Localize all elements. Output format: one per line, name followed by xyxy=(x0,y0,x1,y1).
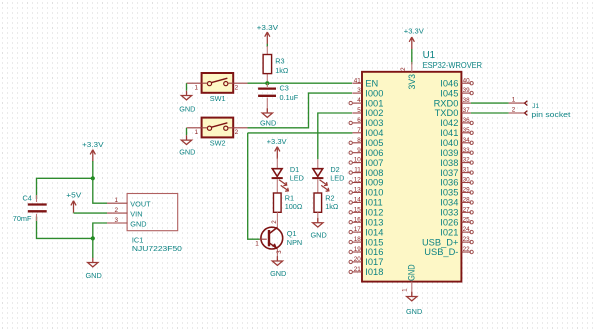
svg-text:15: 15 xyxy=(354,206,362,213)
svg-text:3: 3 xyxy=(276,250,283,254)
svg-text:I004: I004 xyxy=(365,128,383,138)
svg-text:NJU7223F50: NJU7223F50 xyxy=(132,244,182,253)
pin 1 of SW1 xyxy=(187,83,208,91)
svg-text:40: 40 xyxy=(463,77,471,84)
svg-text:1: 1 xyxy=(512,97,516,104)
svg-text:I015: I015 xyxy=(365,237,383,247)
LED D1 xyxy=(272,169,289,192)
svg-text:USB_D+: USB_D+ xyxy=(422,237,458,247)
pin 11 (I008) xyxy=(349,167,383,178)
pin 20 (I017) xyxy=(349,256,383,267)
junction xyxy=(265,81,269,85)
power +5V xyxy=(66,190,81,212)
wire xyxy=(317,179,319,193)
pin 6 (I003) xyxy=(349,117,383,128)
pin 3 (I000) xyxy=(352,87,383,98)
svg-text:8: 8 xyxy=(357,137,361,144)
pin 23 (USB_D+) xyxy=(422,236,473,247)
svg-text:2: 2 xyxy=(512,107,516,114)
svg-text:LED: LED xyxy=(330,174,344,183)
svg-text:1: 1 xyxy=(195,129,199,136)
pin 34 (I040) xyxy=(440,137,473,148)
svg-text:37: 37 xyxy=(463,107,471,114)
svg-text:1kΩ: 1kΩ xyxy=(325,202,339,211)
pin 36 (I042) xyxy=(440,117,473,128)
svg-text:5: 5 xyxy=(357,107,361,114)
power +3.3V (U1 3V3) xyxy=(404,26,424,49)
pin 14 (I011) xyxy=(349,197,383,208)
power +3.3V (R3 pull-up) xyxy=(257,23,279,44)
svg-text:GND: GND xyxy=(86,271,102,280)
svg-text:1: 1 xyxy=(255,241,259,248)
svg-text:I008: I008 xyxy=(365,168,383,178)
ground xyxy=(179,91,195,114)
svg-text:R1: R1 xyxy=(285,193,294,202)
pin 18 (I015) xyxy=(349,236,383,247)
resistor R1 xyxy=(274,193,282,212)
transistor Q1 xyxy=(261,227,283,249)
LED D2 xyxy=(312,169,329,192)
svg-text:27: 27 xyxy=(463,206,471,213)
connector J1 pin 2 xyxy=(509,107,528,116)
svg-text:39: 39 xyxy=(463,87,471,94)
svg-text:1: 1 xyxy=(195,84,199,91)
pin 8 (I005) xyxy=(349,137,383,148)
power +3.3V (regulator output rail) xyxy=(82,140,104,162)
svg-text:I005: I005 xyxy=(365,138,383,148)
svg-text:I010: I010 xyxy=(365,188,383,198)
svg-text:36: 36 xyxy=(463,117,471,124)
svg-text:I036: I036 xyxy=(440,178,458,188)
svg-text:I007: I007 xyxy=(365,158,383,168)
pin 1 of SW2 xyxy=(187,128,208,136)
svg-text:EN: EN xyxy=(365,78,378,88)
svg-text:0.1uF: 0.1uF xyxy=(280,93,299,102)
pin 33 (I039) xyxy=(440,147,473,158)
wire xyxy=(186,128,188,136)
pin 17 (I014) xyxy=(349,226,383,237)
ground xyxy=(270,256,286,278)
svg-text:+3.3V: +3.3V xyxy=(267,137,287,146)
svg-text:3: 3 xyxy=(357,87,361,94)
ground xyxy=(406,292,422,317)
wire emitter xyxy=(276,249,278,261)
wire collector xyxy=(276,212,278,227)
svg-text:I012: I012 xyxy=(365,208,383,218)
svg-text:pin socket: pin socket xyxy=(531,110,570,119)
svg-text:I018: I018 xyxy=(365,267,383,277)
svg-text:2: 2 xyxy=(400,67,407,71)
ground xyxy=(86,258,102,280)
pin 40 (I046) xyxy=(440,77,473,88)
svg-text:RXD0: RXD0 xyxy=(434,98,459,108)
pin 2 of SW2 xyxy=(228,128,248,136)
pin 29 (I035) xyxy=(440,187,473,198)
pin 27 (I033) xyxy=(440,206,473,217)
pin 4 (I001) xyxy=(349,97,383,108)
svg-text:C4: C4 xyxy=(23,194,32,203)
connector J1 pin 1 xyxy=(509,97,528,106)
svg-text:+3.3V: +3.3V xyxy=(82,140,104,149)
svg-text:SW2: SW2 xyxy=(210,139,226,148)
svg-text:32: 32 xyxy=(463,157,471,164)
svg-text:NPN: NPN xyxy=(287,238,302,247)
wire xyxy=(93,223,107,238)
svg-text:16: 16 xyxy=(354,216,362,223)
svg-text:I041: I041 xyxy=(440,128,458,138)
pin 9 (I006) xyxy=(349,147,383,158)
pin 21 (I018) xyxy=(349,266,383,277)
svg-text:I000: I000 xyxy=(365,88,383,98)
svg-text:24: 24 xyxy=(463,226,471,233)
pin 39 (I045) xyxy=(440,87,473,98)
pin 15 (I012) xyxy=(349,206,383,217)
pin 19 (I016) xyxy=(349,246,383,257)
ground xyxy=(260,108,276,127)
svg-text:6: 6 xyxy=(357,117,361,124)
svg-text:2: 2 xyxy=(115,207,119,214)
svg-text:GND: GND xyxy=(270,269,286,278)
pin 25 (I026) xyxy=(440,216,473,227)
svg-text:R3: R3 xyxy=(275,57,284,66)
svg-text:31: 31 xyxy=(463,167,471,174)
svg-text:GND: GND xyxy=(130,220,146,229)
svg-text:19: 19 xyxy=(354,246,362,253)
wire xyxy=(74,212,108,214)
wire xyxy=(92,238,94,258)
pin 13 (I010) xyxy=(349,187,383,198)
svg-text:1kΩ: 1kΩ xyxy=(275,66,289,75)
switch SW1 xyxy=(202,73,234,93)
svg-text:21: 21 xyxy=(354,266,362,273)
svg-text:10: 10 xyxy=(354,157,362,164)
ground xyxy=(311,218,327,240)
svg-text:22: 22 xyxy=(463,246,471,253)
svg-text:SW1: SW1 xyxy=(210,94,226,103)
svg-text:I016: I016 xyxy=(365,247,383,257)
pin 24 (I021) xyxy=(440,226,473,237)
pin 3 GND xyxy=(107,217,147,229)
svg-text:GND: GND xyxy=(406,307,422,316)
resistor R2 xyxy=(314,193,322,212)
svg-text:+5V: +5V xyxy=(66,190,81,199)
svg-text:I014: I014 xyxy=(365,227,383,237)
power +3.3V (LED D1 supply) xyxy=(267,137,287,159)
svg-text:I042: I042 xyxy=(440,118,458,128)
pin 30 (I036) xyxy=(440,177,473,188)
svg-text:C3: C3 xyxy=(280,83,289,92)
svg-text:I037: I037 xyxy=(440,168,458,178)
svg-text:18: 18 xyxy=(354,236,362,243)
svg-text:GND: GND xyxy=(260,118,276,127)
svg-text:2: 2 xyxy=(271,220,278,224)
wire xyxy=(276,159,278,169)
svg-text:LED: LED xyxy=(290,174,304,183)
pin 5 (I002) xyxy=(352,107,383,118)
pin 31 (I037) xyxy=(440,167,473,178)
pin 37 (TXD0) xyxy=(435,107,471,118)
svg-text:I001: I001 xyxy=(365,98,383,108)
svg-text:ESP32-WROVER: ESP32-WROVER xyxy=(423,60,483,70)
pin base stub xyxy=(260,238,267,240)
capacitor C4 xyxy=(28,195,47,221)
svg-text:11: 11 xyxy=(354,167,361,174)
pin 1 (GND) xyxy=(402,264,417,296)
svg-text:100Ω: 100Ω xyxy=(285,202,303,211)
svg-text:23: 23 xyxy=(463,236,471,243)
svg-text:20: 20 xyxy=(354,256,362,263)
wire xyxy=(93,178,107,203)
svg-text:9: 9 xyxy=(357,147,361,154)
junction xyxy=(91,176,95,180)
wire xyxy=(276,179,278,193)
pin 7 (I004) xyxy=(352,127,383,138)
svg-text:I011: I011 xyxy=(365,198,382,208)
svg-text:I017: I017 xyxy=(365,257,383,267)
svg-text:I002: I002 xyxy=(365,108,383,118)
svg-text:Q1: Q1 xyxy=(287,229,297,238)
svg-text:VIN: VIN xyxy=(130,210,142,219)
wire xyxy=(411,49,413,64)
switch SW2 xyxy=(202,118,234,138)
wire RXD0 to J1 xyxy=(471,102,509,104)
pin 32 (I038) xyxy=(440,157,473,168)
pin 12 (I009) xyxy=(349,177,383,188)
svg-text:12: 12 xyxy=(354,177,362,184)
svg-text:38: 38 xyxy=(463,97,471,104)
wire xyxy=(37,178,93,199)
svg-text:13: 13 xyxy=(354,187,362,194)
svg-text:I039: I039 xyxy=(440,148,458,158)
wire xyxy=(317,159,319,168)
pin 22 (USB_D-) xyxy=(424,246,473,257)
wire SW1 to EN xyxy=(248,82,353,84)
wire xyxy=(266,44,268,47)
svg-text:I045: I045 xyxy=(440,88,458,98)
pin 2 of SW1 xyxy=(228,83,248,91)
wire xyxy=(317,212,319,222)
svg-text:I013: I013 xyxy=(365,217,383,227)
pin 35 (I041) xyxy=(440,127,473,138)
capacitor C3 xyxy=(258,83,276,113)
svg-text:41: 41 xyxy=(354,77,362,84)
svg-text:GND: GND xyxy=(407,264,417,281)
pin 1 VOUT xyxy=(107,197,151,208)
svg-text:I021: I021 xyxy=(440,227,458,237)
svg-text:I038: I038 xyxy=(440,158,458,168)
ground xyxy=(179,135,195,156)
svg-text:USB_D-: USB_D- xyxy=(424,247,458,257)
svg-text:70mF: 70mF xyxy=(13,214,32,223)
wire SW2 to I000 xyxy=(248,93,353,128)
svg-text:I003: I003 xyxy=(365,118,383,128)
svg-text:30: 30 xyxy=(463,177,471,184)
wire xyxy=(186,83,188,91)
svg-text:14: 14 xyxy=(354,197,362,204)
MCU U1 body xyxy=(362,72,461,282)
pin 38 (RXD0) xyxy=(434,97,471,108)
svg-text:35: 35 xyxy=(463,127,471,134)
pin 2 VIN xyxy=(107,207,142,219)
svg-text:I034: I034 xyxy=(440,198,458,208)
svg-text:I040: I040 xyxy=(440,138,458,148)
svg-text:GND: GND xyxy=(179,148,195,157)
svg-text:33: 33 xyxy=(463,147,471,154)
pin 16 (I013) xyxy=(349,216,383,227)
pin 2 (3V3) xyxy=(400,62,417,90)
svg-text:2: 2 xyxy=(235,129,239,136)
junction xyxy=(91,236,95,240)
svg-text:+3.3V: +3.3V xyxy=(404,26,424,35)
svg-text:29: 29 xyxy=(463,187,471,194)
svg-text:I046: I046 xyxy=(440,78,458,88)
svg-text:17: 17 xyxy=(354,226,362,233)
svg-text:2: 2 xyxy=(235,84,239,91)
svg-text:28: 28 xyxy=(463,197,471,204)
svg-text:I009: I009 xyxy=(365,178,383,188)
svg-text:1: 1 xyxy=(115,197,119,204)
svg-text:VOUT: VOUT xyxy=(130,200,151,209)
svg-text:GND: GND xyxy=(311,231,327,240)
svg-text:I035: I035 xyxy=(440,188,458,198)
wire TXD0 to J1 xyxy=(471,112,509,114)
wire base xyxy=(248,133,260,239)
svg-text:TXD0: TXD0 xyxy=(435,108,459,118)
wire xyxy=(37,217,93,239)
svg-text:I026: I026 xyxy=(440,217,458,227)
svg-text:I033: I033 xyxy=(440,208,458,218)
svg-text:34: 34 xyxy=(463,137,471,144)
svg-text:GND: GND xyxy=(179,104,195,113)
svg-text:7: 7 xyxy=(357,127,361,134)
pin 28 (I034) xyxy=(440,197,473,208)
svg-text:+3.3V: +3.3V xyxy=(257,23,279,32)
resistor R3 xyxy=(263,46,272,81)
svg-text:1: 1 xyxy=(402,288,409,292)
wire I002 to D2 xyxy=(318,113,352,159)
svg-text:3V3: 3V3 xyxy=(407,74,417,90)
pin 10 (I007) xyxy=(349,157,383,168)
wire I004 to Q1 base xyxy=(248,132,353,134)
svg-text:4: 4 xyxy=(357,97,361,104)
svg-text:R2: R2 xyxy=(325,193,334,202)
svg-text:25: 25 xyxy=(463,216,471,223)
pin 41 (EN) xyxy=(352,77,378,88)
regulator IC1 box xyxy=(127,194,178,231)
wire xyxy=(92,161,94,178)
svg-text:3: 3 xyxy=(115,217,119,224)
svg-text:I006: I006 xyxy=(365,148,383,158)
